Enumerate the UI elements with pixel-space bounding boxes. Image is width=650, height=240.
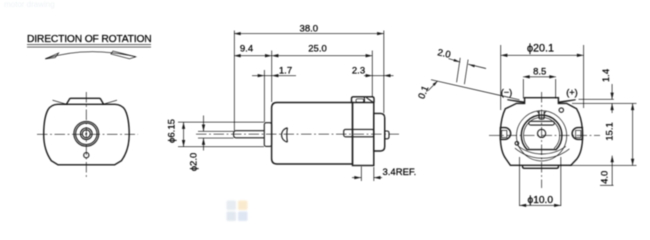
endbell tab inner rect <box>356 99 364 103</box>
dim 9.4 <box>234 55 272 57</box>
endbell tab chamfer <box>366 98 373 103</box>
3.4REF ext lines <box>360 167 362 182</box>
dim 2.0 arrow left <box>449 59 461 63</box>
dim 8.5 ext lines <box>522 79 524 99</box>
side centerline <box>196 133 400 135</box>
ext line x264.4 <box>263 70 265 122</box>
dim 1.4 lines <box>611 84 613 99</box>
rear outer circle <box>517 111 567 161</box>
dim 15.1 bottom ext <box>570 164 637 166</box>
rear swoosh band <box>518 146 566 154</box>
motor can <box>272 103 353 165</box>
rear horizontal centerline <box>489 134 600 136</box>
svg-text:2.3: 2.3 <box>352 66 365 77</box>
bearing dome inside can <box>282 128 288 142</box>
front boss ring <box>81 128 93 140</box>
shaft <box>234 131 265 138</box>
endbell tab divider <box>363 97 365 103</box>
rear outline <box>500 98 582 166</box>
front shaft circle <box>82 130 90 138</box>
dia 2.0 ext lines <box>198 130 234 132</box>
watermark bottom center <box>227 201 248 222</box>
rear small hole left <box>515 142 519 146</box>
svg-text:8.5: 8.5 <box>533 67 546 78</box>
terminal detail slanted edge 2 <box>464 60 468 85</box>
dia 2.0 dim line <box>203 116 205 132</box>
terminal bar <box>344 129 374 136</box>
front view vertical centerline <box>85 92 87 178</box>
endbell <box>353 103 374 166</box>
front tick left <box>53 100 68 104</box>
rear left clip <box>500 128 510 140</box>
front center dot <box>85 133 87 135</box>
front view horizontal centerline <box>37 133 138 135</box>
dim 25.0 <box>272 55 373 57</box>
bushing <box>264 123 271 147</box>
rear notch flare right <box>544 111 546 114</box>
svg-text:ϕ6.15: ϕ6.15 <box>167 119 178 143</box>
dim 4.0 line <box>611 156 613 186</box>
dia 6.15 ext lines <box>178 121 264 123</box>
rear top notch slit <box>539 110 544 119</box>
dim 2.0 arrow right <box>468 64 486 68</box>
dim 8.5 <box>523 76 556 78</box>
svg-text:3.4REF.: 3.4REF. <box>383 167 417 178</box>
ext line x234 <box>233 31 235 131</box>
terminal lead right <box>558 99 575 103</box>
front small hole <box>84 153 89 158</box>
3.4REF dim arrows <box>352 177 361 179</box>
rear small hole top right <box>559 108 563 112</box>
dia 20.1 ext lines <box>500 45 502 110</box>
svg-text:(+): (+) <box>566 87 577 97</box>
rear vent slot <box>529 121 555 125</box>
dia 10.0 dim <box>520 204 561 206</box>
dia 6.15 dim line <box>183 122 185 147</box>
terminal leader line <box>431 80 520 100</box>
rear right clip <box>572 128 582 140</box>
dim 15.1 line <box>632 103 634 165</box>
rear cup inner circle <box>524 117 560 148</box>
svg-text:motor drawing: motor drawing <box>4 0 55 9</box>
ext line x271.7 <box>271 51 273 103</box>
svg-text:25.0: 25.0 <box>308 43 327 54</box>
rear stub <box>385 131 389 139</box>
rotation arrow arc <box>46 52 136 59</box>
front tick right <box>102 100 117 104</box>
front bearing ring 2 <box>76 123 97 144</box>
ext line x372.3 <box>371 51 373 98</box>
rear swoosh arc lower <box>515 148 570 158</box>
dim 2.3 <box>364 75 394 77</box>
svg-text:1.4: 1.4 <box>601 69 612 82</box>
dia 10.0 ext lines <box>519 157 521 206</box>
svg-text:15.1: 15.1 <box>604 122 615 141</box>
svg-text:DIRECTION OF ROTATION: DIRECTION OF ROTATION <box>27 34 152 45</box>
dim 4.0 bottom tick <box>600 184 614 186</box>
svg-text:9.4: 9.4 <box>240 43 253 54</box>
rear cup thick circle <box>521 115 562 150</box>
rear notch flare left <box>537 111 539 114</box>
svg-text:38.0: 38.0 <box>300 23 319 34</box>
svg-text:1.7: 1.7 <box>279 66 292 77</box>
dia 20.1 dim <box>501 54 584 56</box>
endbell top tab <box>352 97 375 103</box>
dim 38.0 <box>234 33 384 35</box>
underline double <box>27 44 151 46</box>
dim 1.4 ext lines <box>579 98 614 100</box>
svg-text:4.0: 4.0 <box>600 171 611 184</box>
front bearing outer ring <box>74 121 99 146</box>
rear bottom foot <box>523 165 559 168</box>
svg-text:ϕ20.1: ϕ20.1 <box>527 43 554 55</box>
rear left clip inner <box>502 130 507 137</box>
svg-text:ϕ10.0: ϕ10.0 <box>528 195 554 206</box>
dim 0.1 arrow <box>428 81 437 90</box>
rear right clip inner <box>576 130 581 137</box>
rotation arrow right outline head <box>111 51 136 59</box>
rear vertical centerline <box>541 92 543 188</box>
rear plate <box>374 113 385 151</box>
terminal detail slanted edge 1 <box>457 58 461 83</box>
rear center hole <box>538 129 546 137</box>
front view outline <box>44 104 130 165</box>
dim 1.7 <box>252 75 296 77</box>
terminal lead left <box>507 99 524 103</box>
front view top tab <box>67 98 104 104</box>
rotation arrow left open head <box>45 53 58 59</box>
svg-text:ϕ2.0: ϕ2.0 <box>189 153 200 172</box>
ext line x383.8 <box>383 31 385 114</box>
